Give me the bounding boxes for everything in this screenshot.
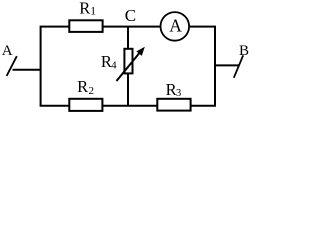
svg-text:R: R: [166, 80, 177, 99]
svg-text:A: A: [169, 16, 182, 36]
svg-text:C: C: [125, 6, 136, 25]
svg-text:3: 3: [176, 88, 181, 99]
svg-text:R: R: [77, 77, 88, 96]
svg-text:4: 4: [111, 59, 117, 71]
svg-text:B: B: [239, 43, 249, 59]
svg-text:R: R: [79, 0, 90, 18]
svg-text:1: 1: [90, 5, 96, 17]
svg-text:2: 2: [89, 85, 95, 97]
svg-text:A: A: [2, 43, 13, 59]
